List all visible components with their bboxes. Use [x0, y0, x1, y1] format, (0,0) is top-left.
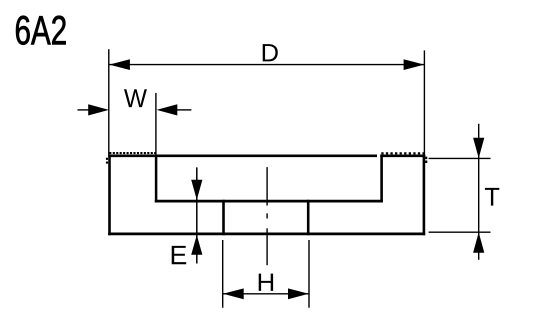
- dimension T label: [485, 188, 499, 206]
- dimension W arrowhead right (pointing left): [157, 104, 178, 115]
- centerline dash lower: [266, 228, 268, 265]
- dimension E label: [172, 246, 186, 264]
- dimension E arrowhead upper (pointing down): [191, 180, 202, 200]
- dimension T extension line top: [429, 157, 491, 159]
- centerline short dash: [266, 213, 268, 218]
- dimension W label: [124, 89, 147, 107]
- abrasive layer dotted line top-left: [109, 152, 156, 154]
- dimension W line left tail: [78, 109, 90, 111]
- dimension H arrowhead right: [288, 288, 309, 299]
- dimension H extension line right: [308, 240, 310, 308]
- dimension W arrowhead left (pointing right): [88, 104, 109, 115]
- dimension E arrowhead lower (pointing up): [191, 235, 202, 255]
- recess right wall: [380, 155, 383, 203]
- dimension H arrowhead left: [223, 288, 244, 299]
- wheel body left edge: [108, 155, 111, 236]
- recess bottom edge: [155, 200, 383, 203]
- wheel body top edge (right segment): [380, 155, 425, 158]
- dimension T line: [478, 124, 480, 260]
- dimension D arrowhead right: [404, 59, 425, 70]
- dimension E line (through part): [196, 167, 198, 263]
- abrasive layer dotted line left side: [106, 158, 108, 164]
- dimension T arrowhead bottom (pointing up): [473, 232, 484, 253]
- label 6A2 (wheel type): [16, 16, 66, 45]
- dimension D arrowhead left: [109, 59, 130, 70]
- dimension H extension line left: [222, 240, 224, 308]
- bore hole right edge: [307, 200, 310, 235]
- wheel body top edge (left segment): [108, 155, 377, 158]
- recess left wall: [155, 155, 158, 203]
- dimension W line right tail: [177, 109, 192, 111]
- abrasive layer dotted line right side: [425, 157, 427, 164]
- dimension T extension line bottom: [429, 231, 491, 233]
- bore hole left edge: [222, 200, 225, 235]
- dimension D extension line right: [423, 50, 425, 157]
- dimension H label: [259, 274, 273, 291]
- wheel body bottom edge: [108, 233, 425, 236]
- dimension W extension line right: [155, 93, 157, 155]
- abrasive layer dotted line top-right: [381, 152, 425, 154]
- centerline dash upper: [266, 167, 268, 205]
- wheel body right edge: [423, 155, 426, 236]
- dimension D label: [263, 44, 278, 61]
- dimension H line: [223, 293, 309, 295]
- dimension D line: [109, 64, 424, 66]
- dimension T arrowhead top (pointing down): [473, 138, 484, 159]
- dimension D extension line left: [108, 49, 110, 154]
